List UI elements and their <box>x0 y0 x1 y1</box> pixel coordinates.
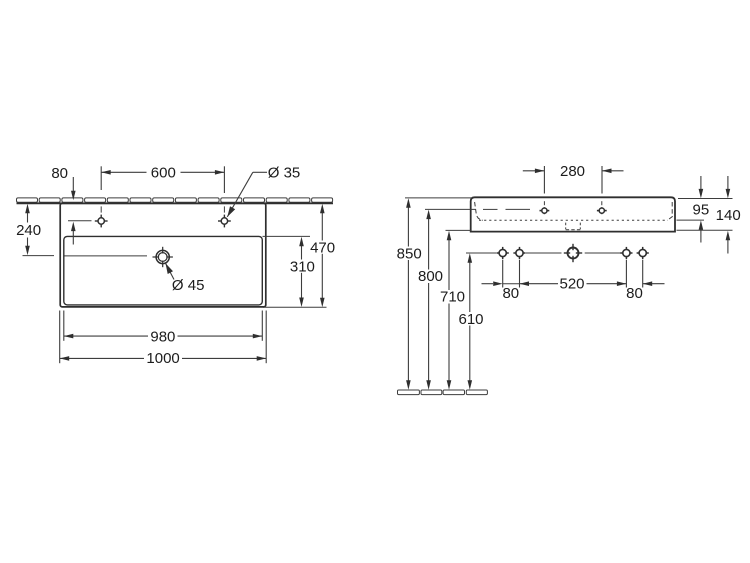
dimension 95 (rim to bowl bottom) <box>677 176 733 243</box>
svg-text:Ø 45: Ø 45 <box>172 277 205 294</box>
fixing hole 3 <box>620 247 632 259</box>
dimension 80 (tap hole offset from wall) <box>51 165 91 244</box>
wall section line (plan view, tiled hatch) <box>17 198 334 203</box>
dimension 520 (fixing hole spacing) <box>520 276 627 293</box>
hidden bowl bottom (dashed/dotted) <box>475 202 673 220</box>
dimension 80 right (fixing hole offset) <box>626 260 664 302</box>
label Ø 35 with leader <box>227 165 300 217</box>
svg-text:980: 980 <box>150 328 175 345</box>
dimension 600 (tap hole spacing) <box>101 164 224 212</box>
basin inner bowl outline (plan view) <box>64 236 262 305</box>
svg-text:850: 850 <box>397 245 422 262</box>
dimension 710 (basin underside height) <box>440 230 471 389</box>
svg-text:710: 710 <box>440 289 465 306</box>
dimension 850 (rim height above floor) <box>397 198 472 390</box>
faucet hole right Ø35 (plan) <box>218 215 231 228</box>
dimension 610 (fixing holes height) <box>458 253 496 390</box>
floor line (tiled hatch) <box>398 390 488 395</box>
tap hole centreline (front, dash-dot) <box>483 208 530 210</box>
dimension 140 (overall height of body) <box>677 176 741 254</box>
faucet hole left Ø35 (plan) <box>95 215 108 228</box>
dimension 280 (tap hole spacing front) <box>523 163 624 194</box>
dimension 800 (tap hole height) <box>418 209 476 389</box>
central fixing hole <box>564 244 582 262</box>
label Ø 45 with leader <box>166 263 205 294</box>
svg-text:Ø 35: Ø 35 <box>268 165 301 182</box>
basin outer outline (plan view) <box>60 203 266 307</box>
svg-text:600: 600 <box>151 164 176 181</box>
svg-text:140: 140 <box>716 207 741 224</box>
svg-text:520: 520 <box>559 276 584 293</box>
svg-text:310: 310 <box>290 258 315 275</box>
faucet hole right (front view) <box>597 201 607 214</box>
svg-text:95: 95 <box>693 202 710 219</box>
faucet hole left (front view) <box>540 201 550 214</box>
svg-text:80: 80 <box>626 285 643 302</box>
drain hole Ø45 (plan) <box>153 247 173 267</box>
fixing hole row connector lines <box>526 252 621 254</box>
basin front elevation outline <box>471 197 675 231</box>
fixing hole 2 <box>513 247 525 259</box>
svg-text:470: 470 <box>310 240 335 257</box>
dimension 1000 (overall width) <box>60 311 267 368</box>
svg-text:240: 240 <box>16 222 41 239</box>
dimension 470 (overall depth) <box>263 204 335 308</box>
fixing hole 4 <box>637 247 649 259</box>
svg-text:610: 610 <box>458 311 483 328</box>
svg-text:800: 800 <box>418 268 443 285</box>
dimension 980 (inner width) <box>64 311 262 346</box>
hidden drain outline (front view) <box>566 223 581 230</box>
svg-text:280: 280 <box>560 163 585 180</box>
svg-text:80: 80 <box>502 285 519 302</box>
bowl centerline through drain <box>23 255 148 257</box>
svg-text:80: 80 <box>51 165 68 182</box>
dimension 80 left (fixing hole offset) <box>482 260 520 302</box>
dimension 310 (bowl depth) <box>263 236 315 307</box>
fixing hole 1 <box>497 247 509 259</box>
svg-text:1000: 1000 <box>146 350 179 367</box>
dimension 240 (wall to drain centre) <box>16 204 41 256</box>
